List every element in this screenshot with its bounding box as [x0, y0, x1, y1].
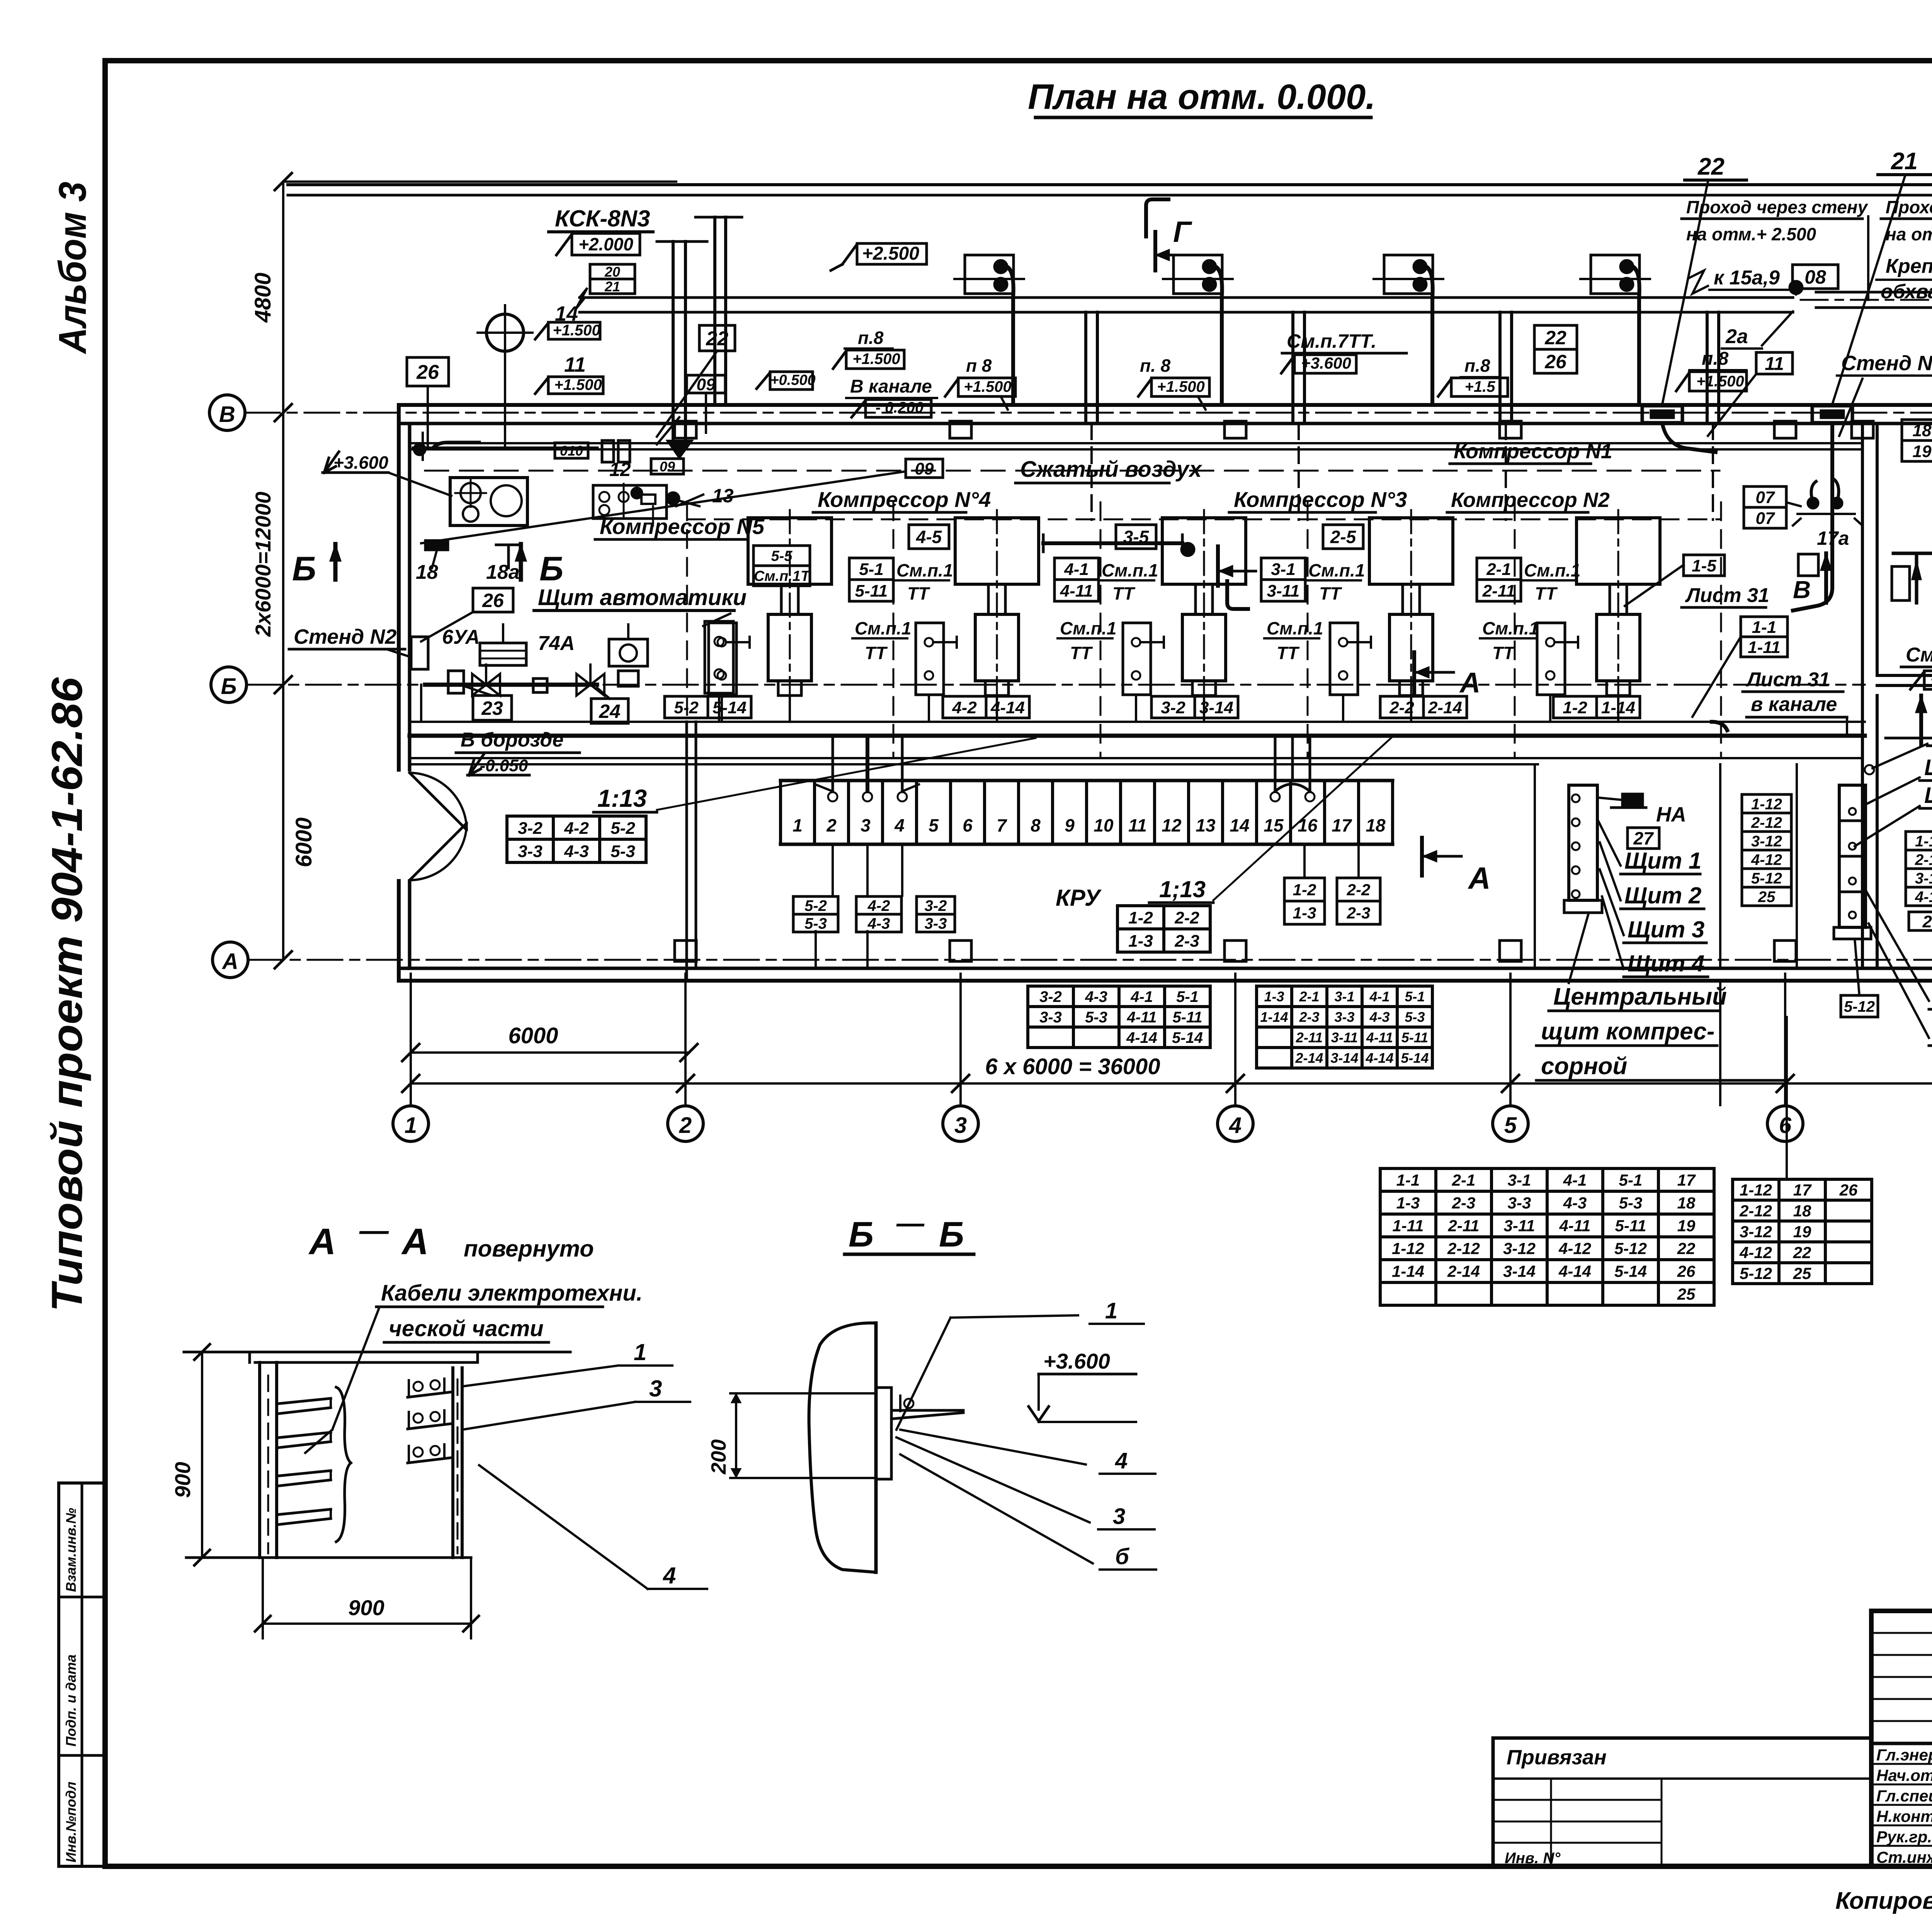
svg-text:Инв.№подл: Инв.№подл — [63, 1782, 79, 1862]
svg-text:2-3: 2-3 — [1299, 1009, 1319, 1025]
svg-text:1-11: 1-11 — [1748, 638, 1781, 657]
svg-text:ТТ: ТТ — [1112, 583, 1136, 604]
svg-text:23: 23 — [481, 697, 503, 719]
svg-text:Б: Б — [292, 549, 316, 588]
compressor unit 2 local panel — [1330, 623, 1358, 695]
svg-text:ТТ: ТТ — [1492, 643, 1515, 663]
svg-text:24: 24 — [599, 701, 621, 722]
svg-text:5-12: 5-12 — [1614, 1240, 1647, 1258]
bottom dimension 6000 (bay 1-2) — [411, 1051, 689, 1054]
svg-text:22: 22 — [1697, 153, 1725, 180]
svg-text:4-1: 4-1 — [1369, 988, 1389, 1004]
svg-text:21: 21 — [1891, 148, 1918, 175]
svg-text:1-12: 1-12 — [1392, 1240, 1424, 1258]
svg-text:11: 11 — [1128, 815, 1147, 835]
svg-text:5-12: 5-12 — [1740, 1264, 1772, 1282]
svg-text:19: 19 — [1793, 1223, 1811, 1241]
svg-text:3-11: 3-11 — [1504, 1217, 1535, 1235]
stack 1-12..25 center — [1742, 794, 1791, 813]
svg-text:1-2: 1-2 — [1563, 698, 1587, 717]
label box 26 (stand) — [473, 588, 513, 612]
svg-text:4-1: 4-1 — [1064, 560, 1089, 579]
lower corridor edge lines — [410, 757, 1862, 759]
svg-text:18: 18 — [1913, 421, 1932, 440]
svg-text:2: 2 — [826, 815, 837, 835]
svg-text:4-11: 4-11 — [1060, 582, 1093, 600]
title block signature rows — [1871, 1743, 1932, 1745]
switch room partition and cell 1 drop — [420, 685, 422, 722]
svg-text:2-1: 2-1 — [1486, 560, 1511, 579]
svg-text:5-1: 5-1 — [1405, 988, 1425, 1004]
svg-text:10: 10 — [1094, 815, 1114, 835]
svg-text:Типовой проект 904-1-62.86: Типовой проект 904-1-62.86 — [43, 677, 91, 1312]
svg-text:4-11: 4-11 — [1559, 1217, 1591, 1235]
axis letter circles В Б А — [209, 395, 245, 430]
tray junction boxes — [965, 255, 1014, 294]
svg-text:4-3: 4-3 — [1563, 1194, 1587, 1212]
svg-text:Шкаф Ш1: Шкаф Ш1 — [1924, 755, 1932, 780]
svg-text:3-3: 3-3 — [518, 842, 543, 861]
compressor unit 4 body — [988, 584, 1005, 614]
svg-text:3-3: 3-3 — [1039, 1009, 1062, 1026]
svg-text:сорной: сорной — [1541, 1053, 1627, 1080]
svg-text:010: 010 — [560, 443, 583, 459]
А-А bottom line — [186, 1556, 471, 1559]
compressor unit 5 motor — [748, 518, 832, 584]
svg-text:1:13: 1:13 — [597, 784, 647, 812]
svg-text:Копировал Генюк Кальку свер: Копировал Генюк Кальку сверил Посупонько — [1835, 1888, 1932, 1914]
svg-text:Проход через стену: Проход через стену — [1686, 197, 1868, 217]
svg-text:в канале: в канале — [1751, 693, 1837, 716]
device cluster 12/13 — [593, 485, 667, 519]
svg-text:2-12: 2-12 — [1447, 1240, 1480, 1258]
svg-text:2-3: 2-3 — [1347, 904, 1371, 922]
svg-text:2-14: 2-14 — [1428, 698, 1462, 717]
svg-text:Инв. N°: Инв. N° — [1505, 1850, 1561, 1867]
svg-text:6: 6 — [1779, 1113, 1792, 1138]
svg-text:900: 900 — [348, 1595, 384, 1620]
svg-text:См.п.1: См.п.1 — [855, 618, 912, 638]
label box 23 — [473, 696, 512, 720]
svg-text:См.п.1Т: См.п.1Т — [754, 568, 811, 585]
А-А left column — [258, 1362, 261, 1558]
wall penetration boxes on top wall — [1642, 406, 1682, 423]
svg-text:В борозде: В борозде — [461, 729, 563, 751]
section mark Г bottom — [1216, 546, 1220, 586]
compressor unit 1 local panel — [1537, 623, 1565, 695]
svg-text:4800: 4800 — [250, 272, 276, 323]
svg-text:8: 8 — [1031, 815, 1041, 835]
stack 07 07 — [1744, 486, 1786, 507]
svg-text:4: 4 — [894, 815, 905, 835]
svg-text:5: 5 — [929, 815, 939, 835]
svg-text:09: 09 — [697, 375, 716, 394]
svg-text:Подп. и дата: Подп. и дата — [63, 1655, 79, 1747]
svg-text:4-3: 4-3 — [1369, 1009, 1389, 1025]
svg-text:Компрессор N°4: Компрессор N°4 — [818, 487, 991, 512]
А-А dim 900 vertical — [201, 1352, 203, 1558]
svg-text:1-3: 1-3 — [1293, 904, 1316, 922]
svg-text:5-14: 5-14 — [713, 698, 747, 717]
partition of switchgear room — [685, 722, 688, 981]
svg-text:+1.500: +1.500 — [1696, 373, 1744, 390]
svg-text:3-14: 3-14 — [1199, 698, 1233, 717]
svg-text:Г: Г — [1173, 216, 1192, 248]
axis line Б — [247, 684, 1865, 686]
svg-text:щит компрес-: щит компрес- — [1541, 1018, 1714, 1045]
cable risers from tray to hall — [1084, 312, 1087, 423]
svg-text:09: 09 — [915, 459, 934, 478]
svg-text:2-1: 2-1 — [1299, 988, 1319, 1004]
compressed air line with section Г mark bottom — [1043, 541, 1182, 545]
svg-text:3: 3 — [649, 1376, 662, 1401]
svg-text:Привязан: Привязан — [1507, 1746, 1607, 1769]
svg-text:ТТ: ТТ — [907, 583, 930, 604]
T symbols in right room — [1915, 553, 1918, 603]
svg-text:обхватами: обхватами — [1881, 281, 1932, 303]
cable drops to cells 15 16 — [1274, 736, 1277, 791]
boxes 1-2/1-3 2-2/2-3 — [1284, 878, 1325, 901]
svg-text:Нач.отд.: Нач.отд. — [1876, 1766, 1932, 1784]
svg-text:1-3: 1-3 — [1128, 932, 1153, 951]
svg-text:Ст.инж.: Ст.инж. — [1876, 1848, 1932, 1866]
svg-text:17: 17 — [1793, 1181, 1812, 1199]
svg-text:6 х 6000 = 36000: 6 х 6000 = 36000 — [985, 1054, 1160, 1079]
svg-text:4-1: 4-1 — [1130, 988, 1153, 1005]
svg-text:2а: 2а — [1725, 325, 1748, 348]
svg-text:22: 22 — [1793, 1243, 1811, 1262]
svg-text:3-2: 3-2 — [925, 897, 947, 914]
stack 18 19 — [1902, 420, 1932, 440]
svg-text:Центральный: Центральный — [1553, 983, 1727, 1010]
section mark А lower — [1420, 838, 1424, 876]
svg-text:5-14: 5-14 — [1401, 1050, 1429, 1066]
svg-text:Крепить: Крепить — [1886, 255, 1932, 277]
svg-text:4-2: 4-2 — [952, 698, 977, 717]
svg-text:1-3: 1-3 — [1396, 1194, 1420, 1212]
svg-text:5-3: 5-3 — [611, 842, 635, 861]
svg-text:ТТ: ТТ — [1277, 643, 1300, 663]
svg-text:12: 12 — [1162, 815, 1182, 835]
svg-text:26: 26 — [416, 361, 439, 384]
svg-text:Б: Б — [539, 549, 563, 588]
svg-text:на отм. + 4.800: на отм. + 4.800 — [1886, 224, 1932, 244]
big table 6 cols — [1380, 1167, 1714, 1170]
svg-text:Щит 1: Щит 1 — [1624, 848, 1701, 874]
А-А right rack — [451, 1368, 454, 1558]
svg-text:+2.500: +2.500 — [862, 243, 919, 264]
axis line А — [248, 959, 1932, 961]
bottom dimension 6x6000=36000 — [411, 1082, 1932, 1085]
label box 22 top — [699, 325, 735, 351]
svg-text:4-12: 4-12 — [1751, 851, 1782, 868]
svg-text:4-3: 4-3 — [564, 842, 589, 861]
svg-text:2-12: 2-12 — [1739, 1202, 1772, 1220]
box 27 — [1628, 828, 1659, 849]
svg-text:6000: 6000 — [291, 817, 316, 867]
svg-text:2х6000=12000: 2х6000=12000 — [251, 492, 275, 637]
svg-text:1-3: 1-3 — [1264, 988, 1284, 1004]
building top wall — [399, 403, 1932, 407]
svg-text:Альбом 3: Альбом 3 — [51, 182, 94, 355]
svg-text:3-3: 3-3 — [1508, 1194, 1531, 1212]
svg-text:См.п.1: См.п.1 — [1267, 618, 1323, 638]
drops below cells to label boxes — [832, 844, 834, 896]
А-А column arms — [277, 1398, 331, 1404]
svg-text:п.8: п.8 — [1702, 349, 1729, 369]
svg-text:3: 3 — [954, 1113, 967, 1138]
svg-text:3-3: 3-3 — [925, 915, 947, 932]
svg-text:Сжатый воздух: Сжатый воздух — [1020, 457, 1203, 482]
svg-text:п 8: п 8 — [966, 355, 992, 376]
table 1-3..5-14 (5 cols) — [1257, 985, 1432, 988]
svg-text:4-14: 4-14 — [990, 698, 1025, 717]
svg-text:5-11: 5-11 — [1401, 1029, 1428, 1045]
svg-text:Компрессор N2: Компрессор N2 — [1451, 488, 1610, 512]
svg-text:5-12: 5-12 — [1751, 870, 1782, 887]
svg-text:2-5: 2-5 — [1330, 527, 1357, 547]
svg-text:В: В — [1793, 576, 1811, 604]
svg-text:5-5: 5-5 — [771, 548, 793, 565]
compressor unit 4 motor — [955, 518, 1039, 584]
sheet frame — [105, 58, 1932, 63]
svg-text:74А: 74А — [538, 632, 575, 655]
svg-text:3-14: 3-14 — [1330, 1050, 1358, 1066]
svg-text:2-1: 2-1 — [1452, 1171, 1476, 1189]
table 1-2 2-2 / 1-3 2-3 — [1117, 904, 1210, 907]
svg-text:3: 3 — [861, 815, 871, 835]
А-А top line — [184, 1351, 570, 1354]
title block signature grid upper — [1871, 1632, 1932, 1634]
compressor unit 3 local panel — [1123, 623, 1151, 695]
svg-text:3-2: 3-2 — [1161, 698, 1185, 717]
svg-text:к 15а,9: к 15а,9 — [1714, 267, 1780, 289]
svg-text:+3.600: +3.600 — [1930, 671, 1932, 688]
svg-text:26: 26 — [1677, 1262, 1696, 1281]
svg-text:Б: Б — [849, 1215, 874, 1254]
svg-text:—: — — [359, 1214, 389, 1247]
svg-text:2-3: 2-3 — [1452, 1194, 1476, 1212]
svg-text:Б: Б — [221, 674, 236, 699]
svg-text:6000: 6000 — [508, 1023, 558, 1048]
stand Стенд 2 — [411, 637, 428, 669]
svg-text:См.п.7ТТ: См.п.7ТТ — [1906, 644, 1932, 666]
svg-text:5-1: 5-1 — [1176, 988, 1199, 1005]
svg-text:6: 6 — [963, 815, 973, 835]
penetration drop wires — [1662, 423, 1716, 452]
wires near wall B — [413, 447, 597, 450]
svg-text:См.п.1: См.п.1 — [1524, 560, 1581, 580]
svg-text:Шкаф Ш2: Шкаф Ш2 — [1924, 783, 1932, 808]
svg-text:22: 22 — [1544, 327, 1566, 349]
svg-text:А: А — [401, 1221, 429, 1262]
compressor unit 5 local panel — [709, 623, 736, 695]
table 3-2 4-2 5-2 / 3-3 4-3 5-3 — [507, 815, 646, 818]
svg-text:+0.500: +0.500 — [770, 372, 815, 388]
svg-text:Кабели электротехни.: Кабели электротехни. — [381, 1281, 643, 1306]
svg-text:+3.600: +3.600 — [333, 452, 388, 473]
svg-text:—: — — [896, 1208, 925, 1239]
svg-text:Н.контр.: Н.контр. — [1876, 1807, 1932, 1825]
svg-text:+1.500: +1.500 — [553, 322, 600, 339]
svg-text:4: 4 — [1115, 1448, 1128, 1473]
svg-text:18: 18 — [416, 561, 438, 583]
svg-text:9: 9 — [1065, 815, 1075, 835]
device НА — [1621, 793, 1644, 808]
svg-text:3-1: 3-1 — [1334, 988, 1354, 1004]
svg-text:2-11: 2-11 — [1482, 582, 1515, 600]
svg-text:А: А — [221, 949, 238, 974]
svg-text:13: 13 — [712, 485, 734, 507]
svg-text:Б: Б — [939, 1215, 964, 1254]
svg-text:3-3: 3-3 — [1334, 1009, 1354, 1025]
svg-text:5-2: 5-2 — [611, 819, 635, 838]
manifold block 6УА — [480, 643, 526, 665]
svg-text:4-14: 4-14 — [1558, 1262, 1591, 1281]
svg-text:См.п.1: См.п.1 — [1482, 618, 1539, 638]
svg-text:1-2: 1-2 — [1293, 881, 1316, 899]
svg-text:Проход через стену: Проход через стену — [1886, 197, 1932, 217]
svg-text:Стенд N2: Стенд N2 — [294, 625, 396, 648]
svg-text:1: 1 — [405, 1113, 417, 1138]
shelf line right room — [1886, 737, 1932, 740]
svg-text:20: 20 — [604, 264, 620, 280]
Б-Б leaders 1 4 3 б — [951, 1315, 1078, 1318]
label boxes n-2 n-14 under units — [665, 696, 751, 718]
svg-text:14: 14 — [1230, 815, 1249, 835]
central panel column — [1569, 785, 1597, 900]
svg-text:22: 22 — [1677, 1240, 1696, 1258]
svg-text:+1.500: +1.500 — [964, 378, 1011, 395]
svg-text:ТТ: ТТ — [865, 643, 888, 663]
svg-text:5-2: 5-2 — [804, 897, 827, 914]
svg-text:3-14: 3-14 — [1503, 1262, 1536, 1281]
table 1-12 17 26 (3 cols) — [1733, 1178, 1872, 1181]
compressor unit 3 motor — [1162, 518, 1246, 584]
svg-text:Компрессор N5: Компрессор N5 — [600, 514, 765, 539]
svg-text:5-3: 5-3 — [1619, 1194, 1643, 1212]
svg-text:4-12: 4-12 — [1739, 1243, 1772, 1262]
svg-text:Взам.инв.№: Взам.инв.№ — [63, 1508, 79, 1592]
svg-text:б: б — [1115, 1544, 1130, 1569]
elevation +2.000 — [572, 233, 640, 255]
svg-text:2-2: 2-2 — [1389, 698, 1414, 717]
label box 010 — [555, 443, 588, 458]
svg-text:2-2: 2-2 — [1347, 881, 1371, 899]
svg-text:3-12: 3-12 — [1915, 870, 1932, 887]
compressor unit 4 local panel — [916, 623, 944, 695]
svg-text:4-5: 4-5 — [916, 527, 942, 547]
svg-text:2-12: 2-12 — [1751, 814, 1782, 831]
gallery top edge line — [288, 183, 1932, 186]
svg-text:1-14: 1-14 — [1260, 1009, 1288, 1025]
valve symbol 1 — [472, 674, 486, 696]
svg-text:+2.000: +2.000 — [578, 234, 633, 254]
svg-text:А: А — [1468, 861, 1491, 895]
svg-text:11: 11 — [1765, 354, 1784, 374]
svg-text:2-2: 2-2 — [1174, 908, 1199, 927]
svg-text:п.8: п.8 — [858, 328, 884, 348]
svg-text:4-3: 4-3 — [867, 915, 890, 932]
svg-text:4-11: 4-11 — [1126, 1009, 1156, 1026]
stack 1-12..4-12 right — [1906, 832, 1932, 850]
svg-text:21: 21 — [604, 279, 620, 294]
svg-text:Компрессор N1: Компрессор N1 — [1454, 440, 1612, 463]
svg-text:3-1: 3-1 — [1508, 1171, 1531, 1189]
svg-text:4-2: 4-2 — [867, 897, 890, 914]
svg-text:1: 1 — [1105, 1298, 1117, 1323]
svg-text:5: 5 — [1504, 1113, 1517, 1138]
svg-text:4: 4 — [1229, 1113, 1242, 1138]
svg-text:В канале: В канале — [850, 376, 932, 397]
label box 26 top-left — [407, 357, 449, 386]
svg-text:Стенд N°1: Стенд N°1 — [1841, 352, 1932, 375]
svg-text:См.п.1: См.п.1 — [1102, 560, 1158, 580]
svg-text:3: 3 — [1113, 1504, 1125, 1529]
svg-text:4-12: 4-12 — [1558, 1240, 1591, 1258]
box 25 right — [1909, 912, 1932, 930]
svg-text:Лист 31: Лист 31 — [1685, 584, 1769, 607]
equipment rect top-left room (device with circles) — [450, 478, 527, 526]
valve symbol 2 — [577, 674, 590, 696]
internal wall in right rooms — [1877, 674, 1932, 677]
svg-text:1-14: 1-14 — [1601, 698, 1635, 717]
label box 24 — [591, 699, 628, 723]
svg-text:5-14: 5-14 — [1172, 1029, 1203, 1046]
svg-text:5-11: 5-11 — [855, 582, 888, 600]
svg-text:В: В — [219, 402, 235, 427]
svg-text:18: 18 — [1366, 815, 1386, 835]
svg-text:18а: 18а — [486, 561, 520, 583]
svg-text:5-2: 5-2 — [674, 698, 699, 717]
flag +0.500 — [770, 372, 813, 389]
table 3-2..5-14 (4 cols) — [1028, 985, 1210, 988]
svg-text:1-12: 1-12 — [1740, 1181, 1772, 1199]
svg-text:1-14: 1-14 — [1392, 1262, 1424, 1281]
box 5-12 — [1841, 995, 1878, 1017]
svg-text:25: 25 — [1922, 912, 1932, 931]
svg-text:3-11: 3-11 — [1267, 582, 1300, 600]
svg-text:200: 200 — [707, 1439, 730, 1475]
svg-text:1-12: 1-12 — [1751, 796, 1782, 813]
label stacks n-1 n-11 — [849, 558, 893, 580]
svg-text:Компрессор N°3: Компрессор N°3 — [1234, 487, 1407, 512]
svg-text:13: 13 — [1196, 815, 1216, 835]
instrument circle top-left — [486, 314, 524, 351]
box n-5 labels above units — [753, 546, 810, 566]
compressor unit 5 body — [781, 584, 798, 614]
svg-text:повернуто: повернуто — [464, 1236, 594, 1262]
stack 1-1 1-11 (unit 1) — [1741, 617, 1787, 637]
А-А dim 900 bottom — [262, 1558, 264, 1638]
svg-text:+3.600: +3.600 — [1043, 1349, 1110, 1373]
svg-text:19: 19 — [1913, 442, 1932, 461]
svg-text:ТТ: ТТ — [1070, 643, 1093, 663]
device 6УА — [448, 671, 464, 693]
compressor unit 3 body — [1196, 584, 1213, 614]
svg-text:КРУ: КРУ — [1056, 885, 1102, 911]
boxes 20 21 — [590, 264, 635, 279]
svg-text:1-11: 1-11 — [1393, 1217, 1424, 1235]
svg-text:25: 25 — [1758, 888, 1776, 905]
svg-text:3-12: 3-12 — [1751, 833, 1782, 850]
svg-text:17: 17 — [1677, 1171, 1696, 1189]
label box 09 center — [906, 459, 943, 478]
svg-text:4-3: 4-3 — [1085, 988, 1107, 1005]
water pipe Крепить обхватами — [1816, 291, 1932, 294]
svg-text:Щит 3: Щит 3 — [1628, 917, 1704, 942]
svg-text:Гл.спец.: Гл.спец. — [1876, 1787, 1932, 1805]
